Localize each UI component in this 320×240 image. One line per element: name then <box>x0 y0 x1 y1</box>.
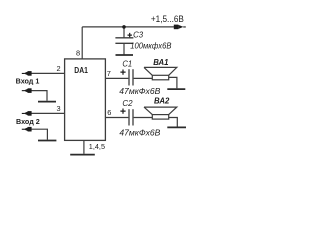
wire: pin 8 to rail <box>81 27 83 59</box>
wire: pin 6 to C2 <box>105 117 128 119</box>
ground pins 1,4,5 <box>70 154 95 156</box>
svg-text:С2: С2 <box>122 98 132 108</box>
svg-text:8: 8 <box>76 49 80 58</box>
svg-text:С1: С1 <box>122 58 132 68</box>
capacitor C1 plates <box>129 69 133 85</box>
C1 polarity plus <box>120 70 125 75</box>
input 1 connector arrow (pin 2) <box>22 71 32 76</box>
svg-text:3: 3 <box>57 104 61 113</box>
wire: C3 top from rail <box>123 27 125 38</box>
ground BA2 <box>167 126 186 128</box>
ground BA1 <box>167 88 185 90</box>
op-amp IC DA1 box <box>65 59 106 140</box>
power arrow (connector) <box>174 25 186 30</box>
svg-text:ВА1: ВА1 <box>153 57 168 67</box>
wire: pin 3 input 2 <box>31 112 65 114</box>
capacitor C3 plates <box>115 38 133 44</box>
svg-text:Вход 1: Вход 1 <box>16 76 40 85</box>
input 2 connector arrow (pin 3) <box>22 111 32 116</box>
svg-text:1,4,5: 1,4,5 <box>89 142 105 151</box>
svg-text:6: 6 <box>107 108 111 117</box>
svg-text:2: 2 <box>57 64 61 73</box>
svg-text:7: 7 <box>107 69 111 78</box>
capacitor C2 plates <box>129 109 133 125</box>
svg-text:Вход 2: Вход 2 <box>16 117 40 126</box>
input 2 shield connector arrow <box>22 127 32 132</box>
node junction dot on rail <box>122 25 126 29</box>
speaker BA2 <box>144 107 177 119</box>
wire: input 1 shield to ground <box>31 91 47 101</box>
input 1 shield connector arrow <box>22 88 32 93</box>
wire: C1 to BA1 <box>134 77 153 79</box>
C3 polarity plus <box>128 33 132 37</box>
ground input 2 shield <box>38 140 56 142</box>
wire: pin 7 to C1 <box>105 77 128 79</box>
ground under C3 <box>116 54 134 56</box>
wire: C2 to BA2 <box>134 117 153 119</box>
wire: input 2 shield to ground <box>31 129 47 139</box>
svg-text:47мкФх6В: 47мкФх6В <box>119 128 161 137</box>
wire: BA1 to ground <box>169 77 177 88</box>
svg-text:+1,5...6В: +1,5...6В <box>151 14 184 24</box>
svg-text:DA1: DA1 <box>74 65 88 75</box>
wire: pin 2 input 1 <box>31 72 65 74</box>
ground input 1 shield <box>38 101 56 103</box>
wire: C3 bottom to ground <box>123 43 125 54</box>
wire: pins 1,4,5 to ground <box>83 140 85 153</box>
C2 polarity plus <box>120 109 125 114</box>
svg-text:100мкфх6В: 100мкфх6В <box>130 41 172 50</box>
wire: BA2 to ground <box>169 118 178 127</box>
speaker BA1 <box>144 67 177 79</box>
svg-text:ВА2: ВА2 <box>154 96 169 106</box>
svg-text:С3: С3 <box>133 30 143 40</box>
wire: +V power rail <box>82 26 174 28</box>
